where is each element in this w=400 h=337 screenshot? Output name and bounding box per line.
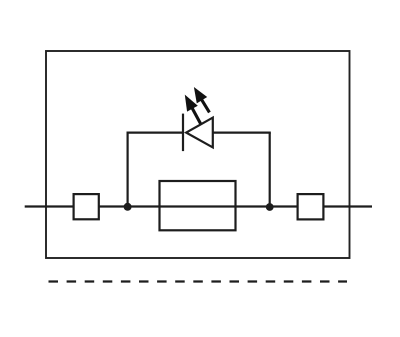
wire left branch vertical bbox=[126, 133, 128, 207]
terminal clamp left bbox=[74, 194, 99, 219]
node left junction bbox=[124, 203, 132, 211]
dashed marker line bbox=[49, 280, 348, 282]
terminal clamp right bbox=[298, 194, 324, 219]
wire top left horizontal bbox=[127, 132, 184, 134]
wire right branch vertical bbox=[269, 133, 271, 207]
enclosure outline bbox=[46, 51, 350, 258]
fuse F1 bbox=[160, 181, 236, 230]
wire main conductor bbox=[25, 205, 372, 207]
node right junction bbox=[266, 203, 274, 211]
wire top right horizontal bbox=[213, 132, 271, 134]
LED light emission arrow 1 bbox=[179, 92, 205, 127]
LED D1 cathode bar bbox=[182, 114, 184, 152]
LED D1 triangle bbox=[186, 118, 213, 148]
LED light emission arrow 2 bbox=[189, 84, 215, 116]
